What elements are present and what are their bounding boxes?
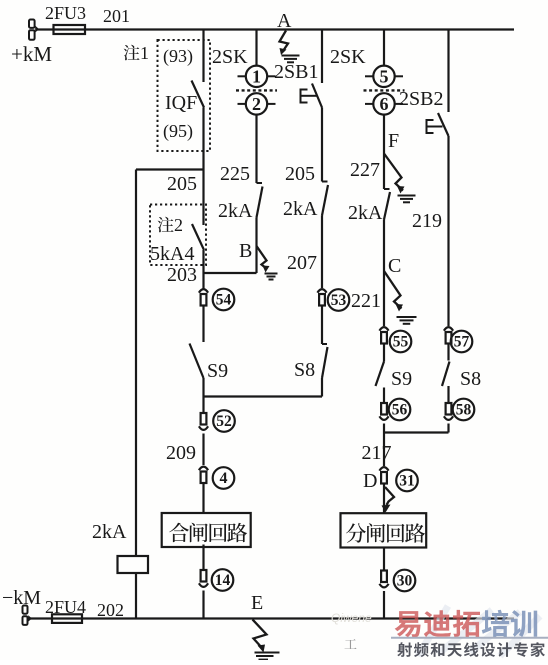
switch 2SK contact 6 xyxy=(373,93,394,114)
wire 201 top bus xyxy=(36,28,514,30)
svg-text:2SK: 2SK xyxy=(330,46,366,68)
contact 2kA col4 xyxy=(322,181,328,183)
wire 217 junction xyxy=(383,424,385,467)
wire 219 xyxy=(447,136,449,326)
wire 205 horizontal xyxy=(136,168,204,170)
svg-text:221: 221 xyxy=(351,290,381,312)
svg-text:D: D xyxy=(363,470,377,492)
wire col5 top xyxy=(383,30,385,66)
wire to box xyxy=(383,484,385,514)
wire col2 top xyxy=(255,30,257,66)
svg-text:2: 2 xyxy=(174,215,183,235)
svg-text:2kA: 2kA xyxy=(283,198,318,220)
contact 2kA col5 xyxy=(384,188,390,190)
svg-text:2FU3: 2FU3 xyxy=(45,3,86,23)
svg-text:217: 217 xyxy=(362,442,392,464)
svg-text:E: E xyxy=(251,592,263,614)
breaker aux contact IQF xyxy=(192,81,205,108)
svg-text:4: 4 xyxy=(220,470,228,487)
svg-text:53: 53 xyxy=(331,292,347,309)
terminal 56 xyxy=(381,403,387,415)
svg-text:209: 209 xyxy=(166,442,196,464)
svg-text:227: 227 xyxy=(350,159,380,181)
wire col6 top xyxy=(447,30,449,113)
svg-text:S9: S9 xyxy=(207,360,228,382)
wire below 54 xyxy=(202,306,204,343)
switch 2SK contact 2 xyxy=(246,93,267,114)
terminal +kM xyxy=(29,20,35,28)
svg-text:205: 205 xyxy=(167,173,197,195)
wire col4 top xyxy=(321,30,323,84)
svg-text:201: 201 xyxy=(103,6,130,26)
label note2 xyxy=(158,217,174,233)
wire col1 mid xyxy=(202,108,204,170)
svg-text:(93): (93) xyxy=(163,46,193,67)
svg-text:219: 219 xyxy=(412,210,442,232)
svg-text:Qiwene: Qiwene xyxy=(331,611,372,625)
pushbutton 2SB2 xyxy=(438,113,449,136)
wire 209 xyxy=(202,434,204,466)
svg-text:203: 203 xyxy=(167,264,197,286)
switch S8 first xyxy=(322,343,327,345)
linkage dashes xyxy=(364,89,405,91)
wire / node F xyxy=(383,115,385,189)
wire node 203 xyxy=(202,250,204,273)
svg-text:5kA4: 5kA4 xyxy=(150,243,194,265)
switch S9 second xyxy=(376,362,385,387)
contact 5kA4 xyxy=(202,170,204,226)
wire 225 xyxy=(255,115,257,183)
box closing circuit xyxy=(162,513,251,547)
watermark underline xyxy=(391,637,548,639)
svg-text:52: 52 xyxy=(216,413,232,430)
dashed box note1 IQF xyxy=(158,40,211,151)
terminal 57 xyxy=(444,327,453,331)
svg-text:205: 205 xyxy=(285,163,315,185)
fuse 2FU3 xyxy=(54,25,86,34)
watermark slogan xyxy=(397,642,412,657)
node B xyxy=(255,218,257,274)
svg-text:−kM: −kM xyxy=(2,587,41,609)
svg-text:B: B xyxy=(239,240,252,262)
svg-text:1: 1 xyxy=(252,67,261,87)
svg-text:S8: S8 xyxy=(294,359,315,381)
watermark backdrop strokes xyxy=(418,606,540,656)
svg-text:54: 54 xyxy=(216,292,232,309)
svg-text:30: 30 xyxy=(397,573,413,590)
box opening circuit xyxy=(341,513,427,547)
node C xyxy=(383,220,385,327)
wire 202 bottom bus xyxy=(29,617,514,619)
contact 2kA col2 xyxy=(257,182,263,184)
svg-text:S8: S8 xyxy=(460,368,481,390)
pushbutton 2SB1 xyxy=(312,84,322,108)
terminal 52 xyxy=(202,397,204,414)
svg-text:55: 55 xyxy=(393,334,409,351)
svg-text:+kM: +kM xyxy=(11,42,52,66)
svg-text:(95): (95) xyxy=(163,121,193,142)
terminal 14 xyxy=(202,545,204,571)
svg-text:S9: S9 xyxy=(391,368,412,390)
terminal 53 xyxy=(317,289,326,293)
terminal D 31 xyxy=(379,467,388,471)
svg-text:2kA: 2kA xyxy=(92,521,127,543)
wire 207 xyxy=(321,216,323,289)
svg-text:1: 1 xyxy=(140,43,149,63)
svg-text:2FU4: 2FU4 xyxy=(45,597,86,617)
watermark gray glyph xyxy=(345,639,357,649)
svg-text:2kA: 2kA xyxy=(348,202,383,224)
switch S8 second xyxy=(442,362,450,387)
switch 2SK contact 5 xyxy=(373,66,394,87)
svg-text:2SK: 2SK xyxy=(212,46,248,68)
svg-text:56: 56 xyxy=(392,402,408,419)
terminal -kM xyxy=(23,606,28,614)
svg-text:F: F xyxy=(388,130,399,152)
label note1 xyxy=(124,45,140,61)
wire 205 col4 xyxy=(321,108,323,182)
svg-text:2: 2 xyxy=(252,94,261,114)
svg-text:IQF: IQF xyxy=(165,92,197,114)
svg-text:6: 6 xyxy=(380,94,389,114)
switch S9 first xyxy=(190,344,204,379)
terminal 4 xyxy=(199,467,208,471)
terminal 58 xyxy=(446,403,452,415)
dashed box note2 xyxy=(150,205,206,266)
wire below 53 xyxy=(321,306,323,345)
svg-text:58: 58 xyxy=(456,402,472,419)
svg-text:2SB1: 2SB1 xyxy=(274,61,318,83)
svg-text:2SB2: 2SB2 xyxy=(399,88,443,110)
terminal 54 xyxy=(202,273,204,289)
svg-text:31: 31 xyxy=(399,473,415,490)
wire col L down xyxy=(135,170,137,557)
switch 2SK contact 1 xyxy=(246,66,267,87)
svg-text:57: 57 xyxy=(454,334,470,351)
terminal 30 xyxy=(383,547,385,571)
svg-text:14: 14 xyxy=(215,572,231,589)
wire join S8 to col1 xyxy=(321,378,323,397)
terminal 55 xyxy=(379,327,388,331)
wire col1 top xyxy=(202,30,204,83)
watermark red brand xyxy=(395,611,421,637)
svg-text:5: 5 xyxy=(380,67,389,87)
linkage dashes xyxy=(236,89,277,91)
svg-text:A: A xyxy=(277,10,292,32)
svg-text:C: C xyxy=(388,255,401,277)
svg-text:202: 202 xyxy=(97,600,124,620)
svg-text:207: 207 xyxy=(287,252,317,274)
svg-text:225: 225 xyxy=(220,163,250,185)
fuse 2FU4 xyxy=(52,614,82,623)
svg-text:2kA: 2kA xyxy=(218,200,253,222)
